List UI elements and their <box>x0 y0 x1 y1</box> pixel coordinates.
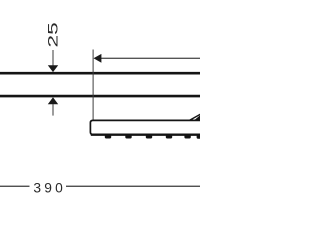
dim 25 up arrowhead <box>48 97 58 104</box>
spray nozzle 3 <box>146 135 152 139</box>
dim 25 down arrowhead <box>48 65 58 72</box>
handle filled wedge <box>195 115 201 120</box>
spray nozzle 1 <box>105 135 111 139</box>
wall bar top outline <box>0 72 200 75</box>
dim 25 extension stem (lower) <box>52 104 54 116</box>
wall bar bottom outline <box>0 95 200 98</box>
handle slant line <box>190 114 201 120</box>
hand shower head body <box>90 120 203 134</box>
svg-text:390: 390 <box>33 181 66 196</box>
spray nozzle 5 <box>184 135 190 139</box>
spray nozzle 4 <box>166 135 172 139</box>
spray nozzle 6 (clipped at edge) <box>197 135 203 139</box>
svg-text:25: 25 <box>45 22 60 47</box>
left arrowhead on dim line <box>94 54 102 63</box>
dim 390 line right segment <box>66 185 200 187</box>
dim line to right edge <box>101 57 200 59</box>
dim 390 line left segment <box>0 185 30 187</box>
dim 25 extension stem (upper) <box>52 50 54 66</box>
head bottom edge (thicker) <box>91 133 200 135</box>
spray nozzle 2 <box>125 135 131 139</box>
extension line at hand shower <box>92 50 94 120</box>
